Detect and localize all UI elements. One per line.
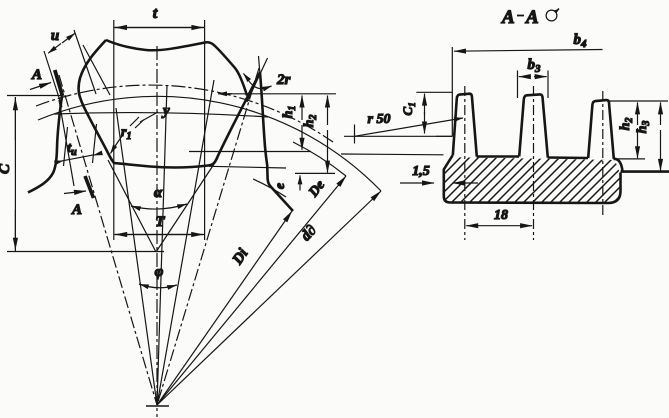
svg-text:h1: h1 xyxy=(281,106,298,119)
tooth centerline right xyxy=(602,91,604,216)
svg-text:φ: φ xyxy=(155,264,164,280)
angle phi arc xyxy=(139,264,177,288)
svg-text:Di: Di xyxy=(229,245,252,268)
svg-text:De: De xyxy=(306,178,328,201)
arc Di segment (thin solid) xyxy=(253,179,286,197)
thin crossing line near left shoulder xyxy=(83,45,110,95)
left tooth profile (thick) xyxy=(28,96,62,193)
svg-text:A: A xyxy=(31,67,42,83)
flank extension V right xyxy=(156,158,218,252)
dimension C1 xyxy=(400,92,452,136)
svg-text:T: T xyxy=(155,214,165,230)
flank extension V left xyxy=(108,160,156,252)
svg-text:y: y xyxy=(161,103,170,119)
svg-text:tu: tu xyxy=(67,141,77,158)
thin line left of section base xyxy=(341,153,444,156)
svg-text:h2: h2 xyxy=(302,115,319,128)
dimension T xyxy=(115,214,205,235)
center cross tick xyxy=(146,405,169,407)
angle alpha arc xyxy=(131,185,187,209)
dimension 1,5 xyxy=(400,164,478,183)
svg-text:C1: C1 xyxy=(400,102,417,115)
arc De (thin solid) xyxy=(293,142,346,176)
tooth centerline middle xyxy=(533,86,535,240)
thin flank extension below left tooth xyxy=(59,100,74,186)
radial thin line b xyxy=(116,108,157,405)
section arrow A upper xyxy=(30,67,63,96)
dimension b4 xyxy=(452,32,602,137)
right tooth (thick) xyxy=(588,100,614,159)
dimension e xyxy=(273,175,300,190)
leader r1 to root fillet xyxy=(111,125,132,154)
dimension h2 xyxy=(295,96,335,174)
svg-text:A: A xyxy=(71,202,82,218)
svg-text:2r: 2r xyxy=(276,72,291,88)
central tooth working flank and root and right tooth flank (thick) xyxy=(79,40,260,167)
svg-text:C: C xyxy=(0,163,13,174)
radius line Di with arrow xyxy=(157,211,292,405)
thin line at root level right xyxy=(209,166,286,168)
dimension u xyxy=(44,28,96,107)
left tooth (thick) xyxy=(453,94,477,157)
title A-A with rotation symbol xyxy=(501,7,560,28)
dimension b3 xyxy=(518,57,549,98)
radial centerline through left tooth tip (dash-dot) xyxy=(59,75,157,405)
thin crossing lines at right tooth tip xyxy=(247,58,268,102)
radius line De with arrow xyxy=(157,176,346,405)
section arrow A lower xyxy=(64,176,94,218)
gap floor right (thick) xyxy=(548,156,589,159)
tip level reference line xyxy=(218,93,232,95)
dimension t_u xyxy=(58,124,98,166)
svg-text:α: α xyxy=(154,185,163,201)
dimension C xyxy=(0,97,15,251)
radial centerline through right tooth tip (dash-dot) xyxy=(157,68,259,405)
base block outline (thick) xyxy=(444,156,621,204)
svg-text:t: t xyxy=(153,5,158,22)
right tooth back flank (thick) xyxy=(260,73,293,212)
svg-text:r 50: r 50 xyxy=(368,112,391,127)
svg-text:h2: h2 xyxy=(618,118,635,131)
middle tooth (thick) xyxy=(519,94,548,157)
central tooth top profile (thick) xyxy=(106,40,247,96)
rim ledge line to image edge xyxy=(621,170,669,173)
outer arc d0 (thin solid) xyxy=(38,96,381,191)
svg-text:A: A xyxy=(501,7,515,28)
radial thin line e xyxy=(157,80,214,405)
svg-text:A: A xyxy=(525,7,539,28)
dimension h2 right xyxy=(609,101,668,159)
radial thin line d xyxy=(157,85,167,405)
svg-text:b4: b4 xyxy=(574,32,588,50)
radius line d0 with arrow xyxy=(157,191,381,405)
dimension 18 xyxy=(466,208,532,226)
svg-text:b3: b3 xyxy=(528,57,542,75)
callout 2r at tooth tip xyxy=(244,72,291,89)
svg-text:d∂: d∂ xyxy=(298,222,320,244)
gap floor left (thick) xyxy=(477,155,520,158)
tooth centerline left xyxy=(464,86,466,240)
dimension t xyxy=(114,5,205,240)
svg-text:u: u xyxy=(51,28,59,44)
r50 leader xyxy=(344,112,463,144)
svg-text:r1: r1 xyxy=(121,125,131,142)
horizontal line at C bottom xyxy=(7,251,164,253)
horizontal line at C top (tip level) xyxy=(7,95,62,97)
svg-text:1,5: 1,5 xyxy=(412,164,430,179)
pitch arc (dash-dot) xyxy=(36,85,333,142)
svg-text:18: 18 xyxy=(494,208,508,223)
dimension h3 right xyxy=(635,102,661,170)
dimension y ticks and label xyxy=(130,103,170,128)
dimension h1 xyxy=(189,96,311,152)
centerline vertical of wheel xyxy=(156,46,158,417)
svg-text:e: e xyxy=(273,183,288,189)
step fillet right of right tooth xyxy=(614,159,623,172)
chord line across working points xyxy=(54,113,268,117)
